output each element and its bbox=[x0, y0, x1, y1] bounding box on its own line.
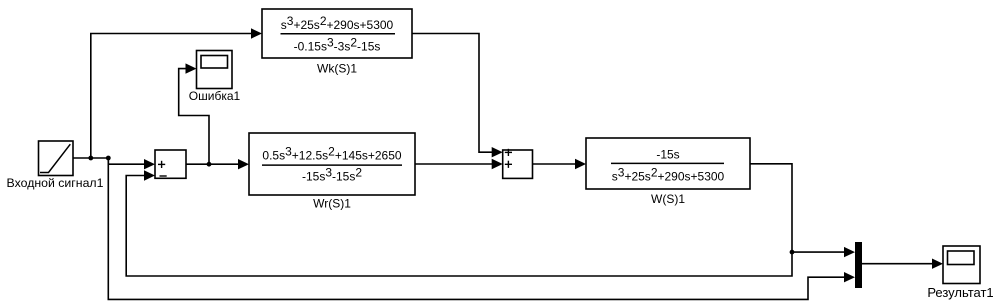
wire node B down to bottom then to Mux lower input bbox=[108, 158, 855, 299]
label W(S)1 bbox=[651, 192, 685, 206]
junction node D bbox=[790, 250, 795, 255]
svg-text:Ошибка1: Ошибка1 bbox=[189, 89, 241, 103]
sum block Sum1 bbox=[155, 150, 186, 178]
label Wr(S)1 bbox=[313, 197, 351, 211]
wire Sum2 output to W(S)1 input bbox=[533, 159, 587, 169]
wire node A up to Wk(S)1 input bbox=[91, 28, 262, 158]
svg-text:-15s: -15s bbox=[656, 148, 679, 162]
label Результат1 bbox=[927, 285, 993, 300]
transfer function Wr(S)1 bbox=[249, 133, 415, 195]
saturation block Входной сигнал1 bbox=[39, 141, 74, 176]
mux Mux1 bbox=[855, 242, 862, 288]
svg-text:Результат1: Результат1 bbox=[927, 285, 993, 300]
junction node B bbox=[106, 156, 111, 161]
wire W(S)1 output feedback to Sum1 minus input bbox=[126, 164, 792, 276]
junction node C bbox=[207, 162, 212, 167]
label Входной сигнал1 bbox=[7, 176, 104, 190]
wire node C to scope Ошибка1 bbox=[179, 63, 209, 164]
wire Sum1 output to Wr(S)1 input bbox=[186, 159, 249, 169]
wire node D to Mux upper input bbox=[792, 247, 855, 257]
svg-text:Входной сигнал1: Входной сигнал1 bbox=[7, 176, 104, 190]
wire saturation output bbox=[73, 157, 108, 159]
svg-text:W(S)1: W(S)1 bbox=[651, 192, 685, 206]
svg-text:Wk(S)1: Wk(S)1 bbox=[317, 62, 357, 76]
label Wk(S)1 bbox=[317, 62, 357, 76]
svg-text:Wr(S)1: Wr(S)1 bbox=[313, 197, 351, 211]
label Ошибка1 bbox=[189, 89, 241, 103]
wire node B down-jog to Sum1 plus input bbox=[108, 158, 155, 169]
scope Результат1 bbox=[943, 246, 980, 284]
scope Ошибка1 bbox=[197, 51, 233, 89]
transfer function W(S)1 bbox=[586, 138, 750, 189]
transfer function Wk(S)1 bbox=[262, 9, 412, 58]
wire Wr(S)1 output to Sum2 lower input bbox=[415, 159, 503, 169]
junction node A bbox=[88, 156, 93, 161]
wire Mux1 output to scope Результат1 bbox=[862, 259, 943, 269]
sum block Sum2 bbox=[503, 149, 533, 179]
wire Wk(S)1 output to Sum2 upper input bbox=[412, 34, 503, 158]
